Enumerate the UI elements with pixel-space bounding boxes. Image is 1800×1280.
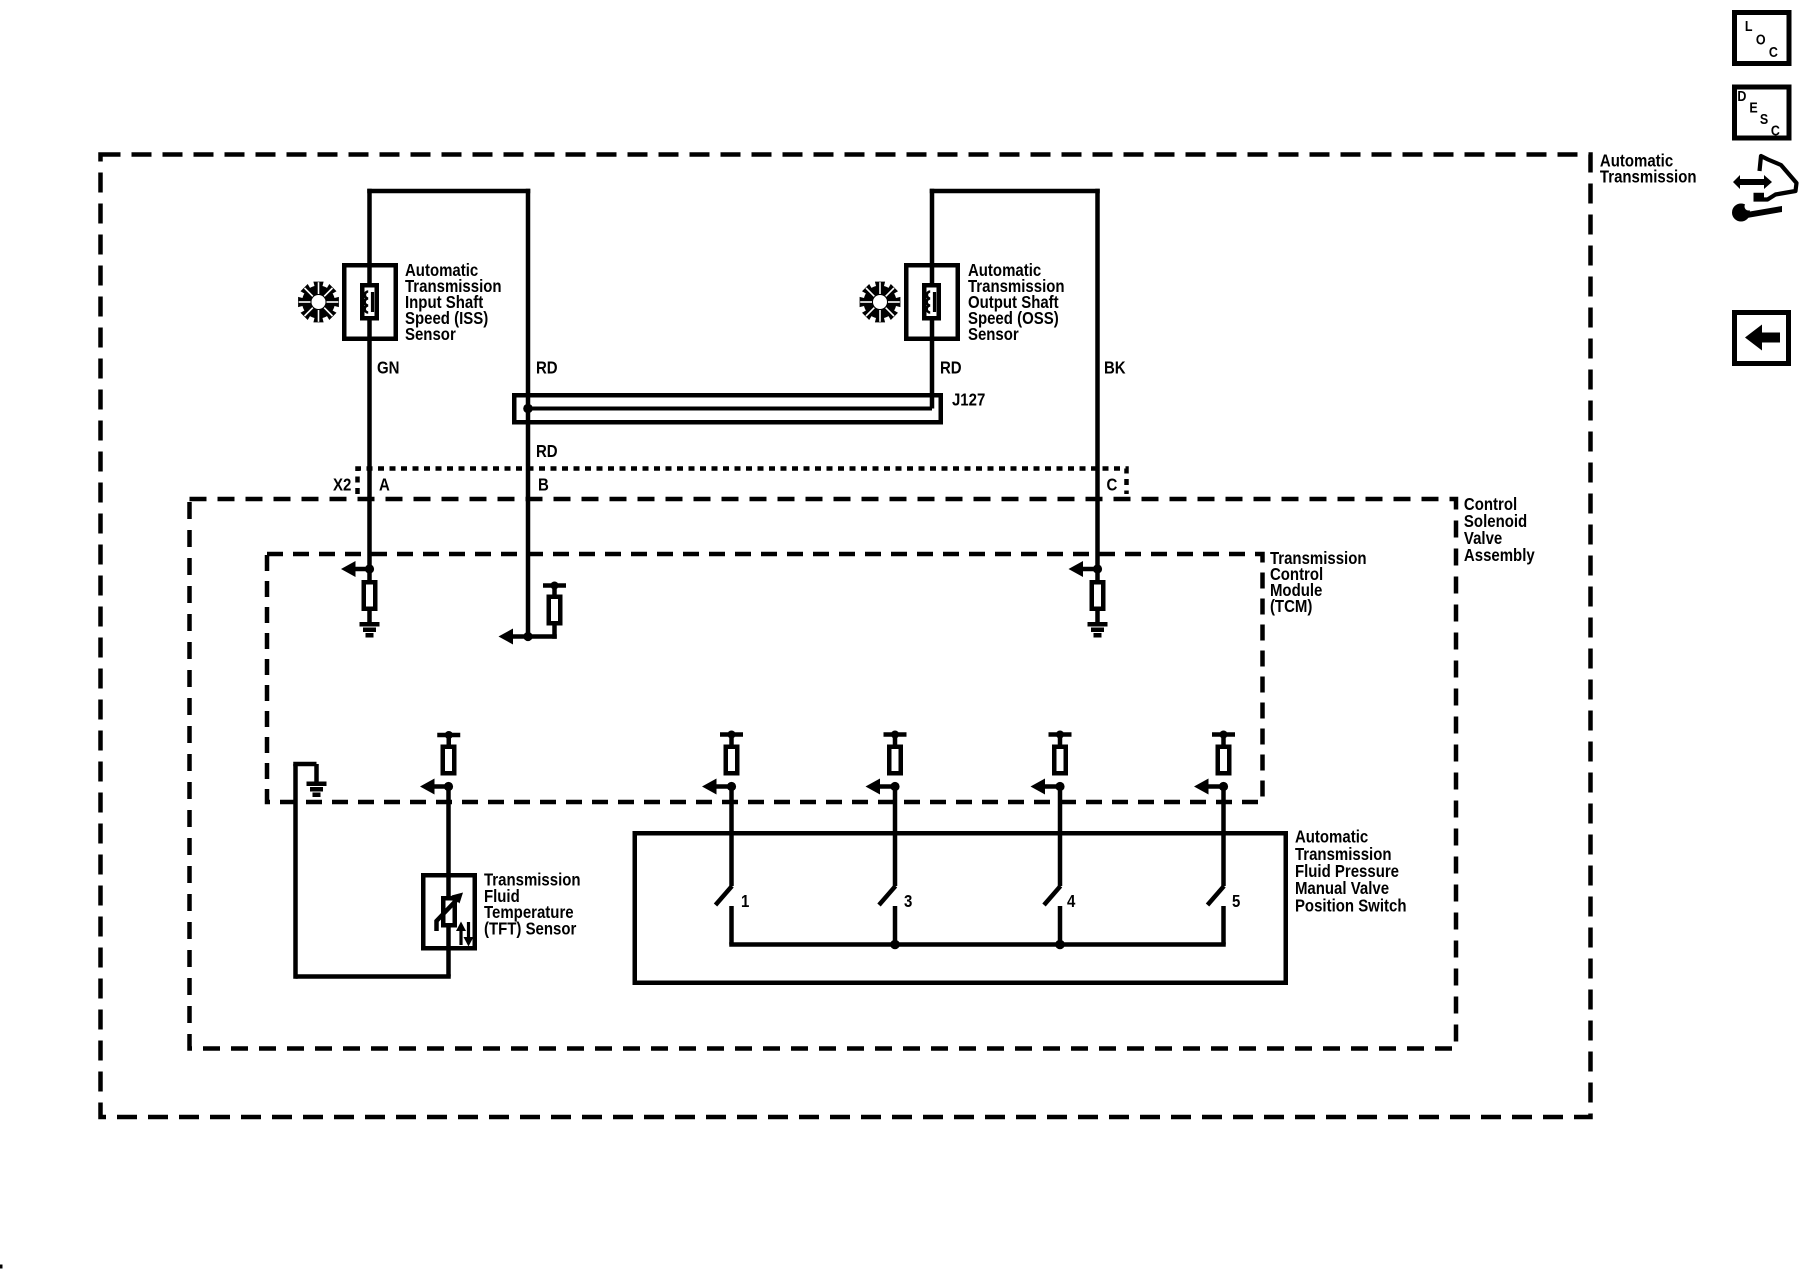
wire switch 1 TCM-to-switch [893, 787, 898, 887]
svg-text:(TCM): (TCM) [1270, 596, 1312, 617]
switch 5 lower contact [1221, 906, 1226, 945]
resistor TCM pin C [1092, 582, 1104, 609]
resistor TCM TFT pullup [443, 747, 455, 774]
wire OSS loop top [930, 189, 1100, 194]
T terminator switch 5 pullup [1212, 732, 1235, 737]
svg-text:E: E [1749, 99, 1757, 115]
vehicle/wrench icon [1733, 175, 1772, 189]
svg-text:C: C [1769, 44, 1778, 60]
LOC button [1735, 13, 1790, 64]
page mark bottom-left [0, 1265, 3, 1269]
connector X2 (dotted bracket) [358, 469, 1127, 495]
switch 4 lower contact [1058, 906, 1063, 945]
T terminator switch 1 pullup [720, 732, 743, 737]
switch 1 blade [716, 886, 733, 905]
wire RD OSS-to-J127 [930, 189, 935, 409]
gear icon OSS [860, 282, 901, 323]
svg-text:Sensor: Sensor [968, 324, 1019, 345]
wire TFT signal TCM-to-sensor [446, 787, 451, 977]
gear icon ISS [298, 282, 339, 323]
resistor TCM switch 5 [1218, 747, 1230, 774]
arrow into TCM pin B [509, 634, 529, 639]
arrow into TCM switch 3 pin [876, 784, 896, 789]
ISS sensor outer box [344, 265, 396, 339]
svg-text:C: C [1771, 122, 1780, 138]
resistor TCM switch 1 [726, 747, 738, 774]
resistor TCM pin B pullup [549, 597, 561, 624]
TFT up/down arrows [459, 929, 462, 945]
wire pin B pullup [528, 634, 557, 639]
arrow into TCM switch 1 pin [712, 784, 732, 789]
ISS sensor inner element [362, 285, 377, 318]
svg-text:3: 3 [904, 891, 912, 912]
TFT thermistor element [443, 898, 455, 925]
ground TCM internal (TFT return) [307, 782, 327, 787]
T terminator switch 3 pullup [884, 732, 907, 737]
svg-text:4: 4 [1067, 891, 1076, 912]
arrow into TCM pin C [1079, 567, 1098, 572]
wire switch 3 TCM-to-switch [1221, 787, 1226, 887]
T terminator switch 4 pullup [1049, 732, 1072, 737]
svg-text:RD: RD [536, 441, 558, 462]
splice J127 box [514, 395, 941, 422]
splice J127 bus [528, 407, 932, 411]
svg-text:BK: BK [1104, 357, 1126, 378]
svg-text:RD: RD [536, 357, 558, 378]
wire ISS loop top [367, 189, 530, 194]
manual valve position switch box [635, 833, 1286, 983]
svg-text:O: O [1756, 31, 1766, 47]
Control Solenoid Valve Assembly boundary (dashed) [190, 499, 1457, 1049]
wire switch 2 TCM-to-switch [1058, 787, 1063, 887]
wire TFT return bottom [296, 974, 451, 979]
junction dot switch 3 [890, 940, 900, 950]
resistor TCM switch 3 [889, 747, 901, 774]
TFT sensor outer box [423, 875, 475, 948]
arrow into TCM switch 4 pin [1041, 784, 1061, 789]
svg-text:Assembly: Assembly [1464, 545, 1535, 566]
svg-text:GN: GN [377, 357, 399, 378]
svg-text:1: 1 [741, 891, 749, 912]
DESC button [1735, 87, 1790, 138]
switch 1 lower contact [729, 906, 734, 945]
arrow into TCM switch 5 pin [1204, 784, 1224, 789]
switch 3 lower contact [893, 906, 898, 945]
Transmission Control Module boundary (dashed) [267, 554, 1263, 802]
svg-text:Position Switch: Position Switch [1295, 895, 1407, 916]
junction dot J127 [523, 404, 533, 414]
arrow into TCM pin A [351, 567, 370, 572]
wire TFT return riser [293, 764, 298, 979]
wire BK OSS-to-TCM (pin C) [1095, 189, 1100, 582]
svg-text:Transmission: Transmission [1600, 166, 1697, 187]
svg-text:L: L [1745, 18, 1753, 34]
svg-text:RD: RD [940, 357, 962, 378]
ground TCM pin C [1095, 611, 1100, 623]
wire switch 0 TCM-to-switch [729, 787, 734, 887]
OSS sensor outer box [906, 265, 958, 339]
svg-text:J127: J127 [952, 389, 985, 410]
svg-text:A: A [379, 474, 390, 495]
svg-text:C: C [1106, 474, 1117, 495]
resistor TCM switch 4 [1054, 747, 1066, 774]
svg-text:5: 5 [1232, 891, 1240, 912]
T terminator TFT pullup [437, 733, 460, 738]
svg-text:(TFT) Sensor: (TFT) Sensor [484, 918, 577, 939]
wire GN sensor-to-TCM (pin A) [367, 189, 372, 582]
svg-text:Sensor: Sensor [405, 324, 456, 345]
svg-text:B: B [538, 474, 549, 495]
arrow into TCM TFT pin [430, 784, 449, 789]
junction dot switch 4 [1055, 940, 1065, 950]
svg-text:X2: X2 [333, 474, 351, 495]
svg-text:S: S [1760, 111, 1768, 127]
switch common bus [729, 942, 1226, 947]
Automatic Transmission boundary (dashed) [101, 155, 1591, 1118]
switch 3 blade [879, 886, 896, 905]
switch 5 blade [1208, 886, 1225, 905]
back arrow button [1735, 313, 1789, 364]
switch 4 blade [1044, 886, 1061, 905]
wire TFT return to ground [293, 762, 316, 767]
OSS sensor inner element [924, 285, 939, 318]
wire RD loop right to J127 and pin B [526, 189, 531, 639]
resistor TCM pin A [364, 582, 376, 609]
svg-text:D: D [1737, 88, 1746, 104]
T terminator pin B pullup [552, 585, 557, 596]
ground TCM pin A [367, 611, 372, 623]
